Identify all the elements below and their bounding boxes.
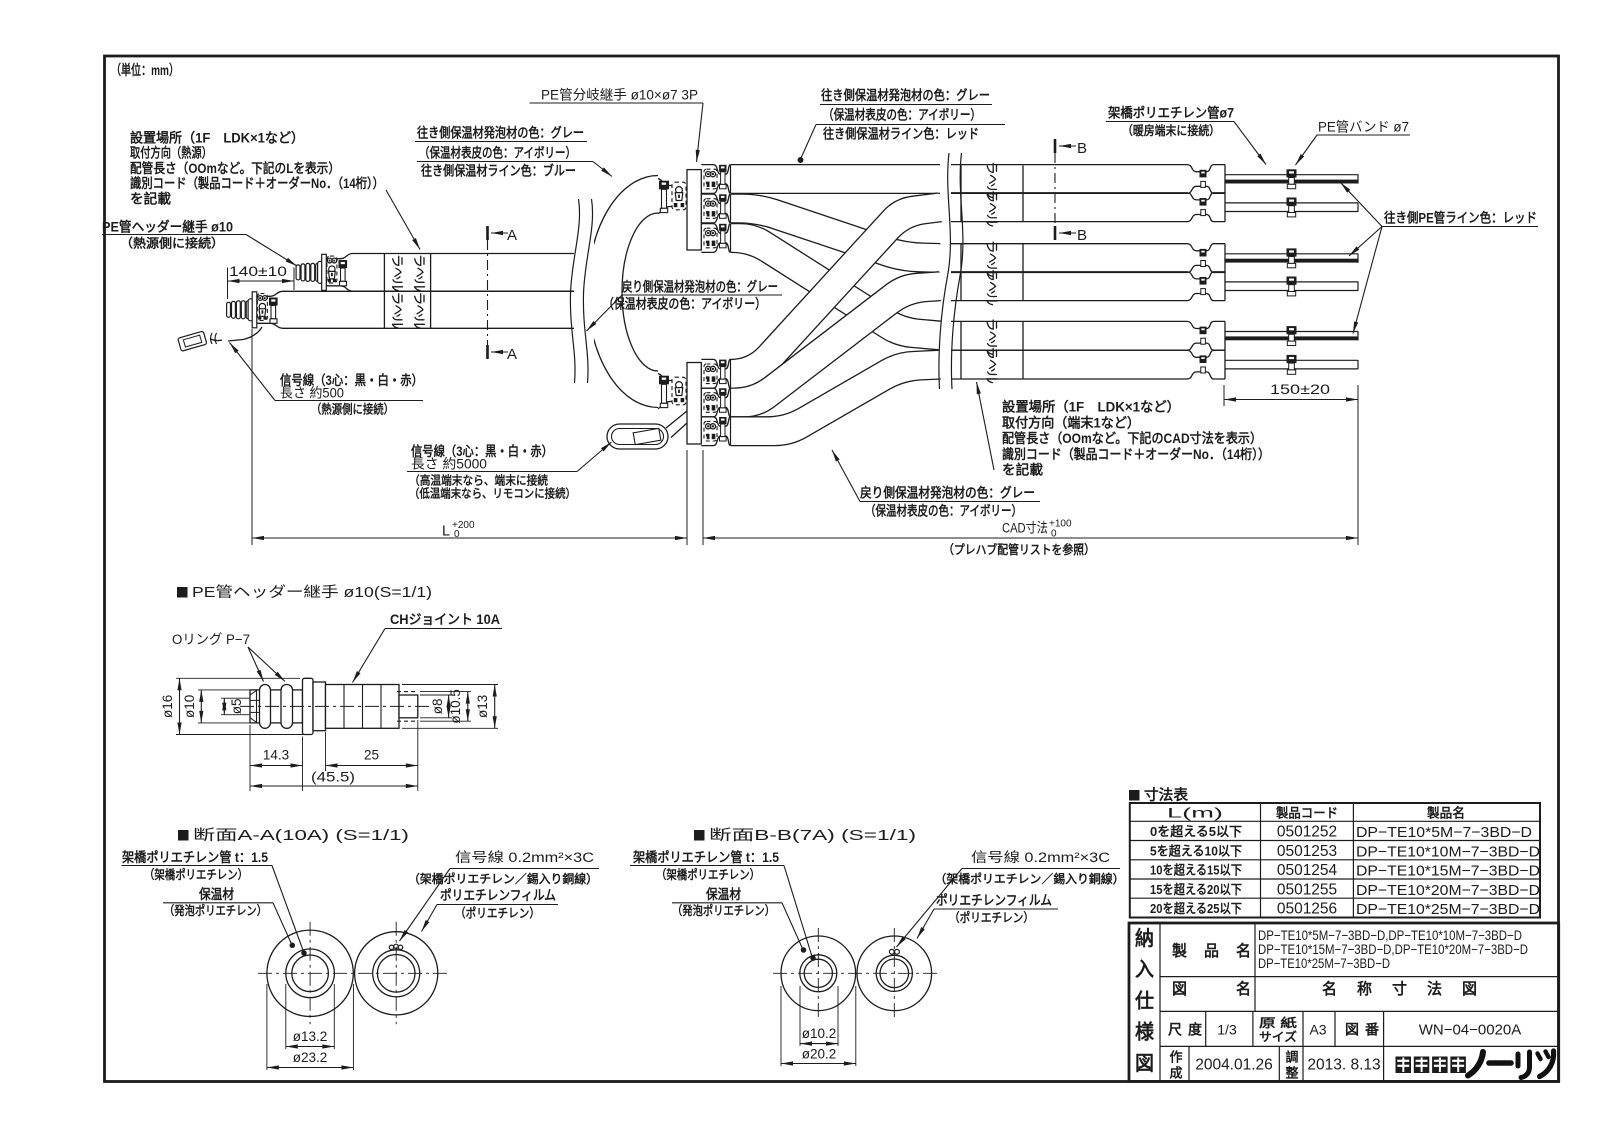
dim ø8 bbox=[420, 694, 452, 696]
vertical extension from fitting to L dim bbox=[251, 329, 253, 545]
label band on header pipes bbox=[383, 254, 385, 329]
svg-text:DP−TE10*15M−7−3BD−D: DP−TE10*15M−7−3BD−D bbox=[1356, 863, 1540, 880]
dim ø10.5 bbox=[420, 691, 471, 693]
svg-text:往き側保温材発泡材の色：グレー: 往き側保温材発泡材の色：グレー bbox=[821, 87, 990, 103]
neck band clamp bbox=[1200, 277, 1207, 285]
svg-text:称: 称 bbox=[1357, 979, 1372, 998]
svg-text:設置場所（1F LDK×1など）: 設置場所（1F LDK×1など） bbox=[1002, 399, 1180, 415]
PE pipe band clamp bbox=[1287, 326, 1297, 334]
A-A left pipe wall bbox=[286, 949, 335, 998]
B-B crosshairs bbox=[773, 972, 940, 974]
dim ø5 bbox=[221, 697, 250, 699]
detail centerline bbox=[240, 705, 430, 707]
svg-text:L(m): L(m) bbox=[1167, 806, 1223, 821]
B-B dim ø10.2 bbox=[799, 986, 801, 1046]
wavy break lines left bbox=[570, 199, 579, 383]
svg-text:（発泡ポリエチレン）: （発泡ポリエチレン） bbox=[164, 903, 267, 918]
L / CAD extension lines below lower branch fitting bbox=[686, 450, 688, 545]
svg-text:5を超える10以下: 5を超える10以下 bbox=[1150, 843, 1242, 858]
svg-text:A: A bbox=[507, 227, 517, 244]
svg-text:0501253: 0501253 bbox=[1277, 843, 1337, 860]
svg-text:保温材: 保温材 bbox=[198, 886, 234, 902]
svg-text:様: 様 bbox=[1135, 1020, 1155, 1044]
port band clamp bbox=[719, 194, 726, 201]
svg-text:（保温材表皮の色：アイボリー）: （保温材表皮の色：アイボリー） bbox=[823, 107, 981, 123]
svg-text:1/3: 1/3 bbox=[1217, 1022, 1237, 1038]
svg-text:識別コード（製品コード＋オーダーNo．（14桁））: 識別コード（製品コード＋オーダーNo．（14桁）） bbox=[1002, 446, 1270, 462]
svg-text:品: 品 bbox=[1204, 942, 1219, 960]
svg-text:B: B bbox=[1077, 227, 1087, 244]
A-A left circle insulation bbox=[267, 930, 353, 1016]
pair pipe segment bbox=[951, 192, 1187, 194]
svg-text:戻り側保温材発泡材の色：グレー: 戻り側保温材発泡材の色：グレー bbox=[622, 279, 778, 295]
dim 14.3 bbox=[249, 725, 251, 791]
title block rows bbox=[1160, 976, 1559, 978]
wavy break lines right bbox=[939, 153, 950, 389]
C-loop return bend inner arc bbox=[622, 213, 658, 371]
pair pipe segment bbox=[951, 320, 1187, 322]
branch fitting outlet port bbox=[701, 165, 730, 175]
svg-text:（プレハブ配管リストを参照）: （プレハブ配管リストを参照） bbox=[943, 542, 1095, 557]
svg-text:取付方向（熱源）: 取付方向（熱源） bbox=[130, 145, 212, 161]
B-B left pipe wall bbox=[800, 955, 837, 992]
svg-text:ø16: ø16 bbox=[160, 695, 175, 718]
branch fitting outlet port bbox=[701, 388, 730, 398]
svg-text:成: 成 bbox=[1170, 1066, 1183, 1081]
svg-text:架橋ポリエチレン管 t：1.5: 架橋ポリエチレン管 t：1.5 bbox=[121, 849, 268, 865]
svg-text:2013. 8.13: 2013. 8.13 bbox=[1307, 1057, 1380, 1074]
svg-text:信号線 0.2mm²×3C: 信号線 0.2mm²×3C bbox=[971, 850, 1110, 865]
dimension CAD +100/0 bbox=[703, 537, 1358, 539]
svg-text:調: 調 bbox=[1286, 1050, 1299, 1065]
neck band clamp bbox=[1200, 170, 1207, 178]
leader from right note block to label band bbox=[977, 382, 995, 470]
header fitting PE-pipe header joint bbox=[227, 302, 231, 317]
svg-text:PE管分岐継手 ø10×ø7 3P: PE管分岐継手 ø10×ø7 3P bbox=[541, 88, 698, 103]
svg-text:0: 0 bbox=[454, 529, 460, 540]
svg-text:（保温材表皮の色：アイボリー）: （保温材表皮の色：アイボリー） bbox=[419, 145, 576, 161]
detail flange bbox=[303, 678, 314, 734]
svg-text:0: 0 bbox=[1051, 529, 1057, 540]
svg-text:製品名: 製品名 bbox=[1426, 806, 1465, 821]
svg-text:断面A-A(10A) (S=1/1): 断面A-A(10A) (S=1/1) bbox=[193, 827, 409, 844]
pair pipe segment bbox=[951, 243, 1187, 245]
leader from note block to upper pipe bbox=[386, 190, 420, 250]
svg-text:（ポリエチレン）: （ポリエチレン） bbox=[949, 910, 1034, 925]
pipe U3 outbound to pair3 bbox=[731, 224, 941, 350]
detail collar bbox=[313, 682, 326, 731]
detail tip ø8 bbox=[399, 695, 418, 718]
svg-text:DP−TE10*15M−7−3BD−D,DP−TE10*20: DP−TE10*15M−7−3BD−D,DP−TE10*20M−7−3BD−D bbox=[1258, 942, 1528, 957]
svg-text:DP−TE10*10M−7−3BD−D: DP−TE10*10M−7−3BD−D bbox=[1356, 843, 1540, 860]
svg-text:0を超える5以下: 0を超える5以下 bbox=[1150, 824, 1242, 839]
svg-text:製: 製 bbox=[1171, 941, 1187, 960]
svg-text:名: 名 bbox=[1236, 979, 1251, 998]
hidden CH joint (dashed block) bbox=[327, 256, 337, 283]
svg-text:図: 図 bbox=[1345, 1022, 1359, 1038]
svg-text:DP−TE10*25M−7−3BD−D: DP−TE10*25M−7−3BD−D bbox=[1356, 901, 1540, 918]
svg-text:を記載: を記載 bbox=[1002, 462, 1044, 478]
svg-text:架橋ポリエチレン管 t：1.5: 架橋ポリエチレン管 t：1.5 bbox=[632, 849, 779, 865]
port band clamp bbox=[719, 224, 726, 231]
svg-text:信号線 0.2mm²×3C: 信号線 0.2mm²×3C bbox=[455, 850, 594, 865]
svg-text:図: 図 bbox=[1462, 980, 1477, 998]
pipe U1 outbound pair1 (straight) bbox=[731, 165, 940, 194]
pipe end neck and cap bbox=[1187, 244, 1225, 251]
svg-text:入: 入 bbox=[1135, 958, 1154, 981]
svg-text:製品コード: 製品コード bbox=[1275, 806, 1338, 821]
svg-text:（熱源側に接続）: （熱源側に接続） bbox=[311, 402, 394, 417]
pair pipe segment bbox=[951, 164, 1187, 166]
svg-text:往き側保温材ライン色：ブルー: 往き側保温材ライン色：ブルー bbox=[421, 163, 576, 179]
svg-text:ø10: ø10 bbox=[182, 695, 197, 718]
svg-text:（高温端末なら、端末に接続: （高温端末なら、端末に接続 bbox=[409, 473, 548, 488]
svg-text:長さ 約5000: 長さ 約5000 bbox=[411, 457, 487, 472]
svg-text:ø10.2: ø10.2 bbox=[802, 1026, 837, 1041]
svg-text:DP−TE10*5M−7−3BD−D: DP−TE10*5M−7−3BD−D bbox=[1356, 824, 1532, 841]
svg-text:DP−TE10*5M−7−3BD−D,DP−TE10*10M: DP−TE10*5M−7−3BD−D,DP−TE10*10M−7−3BD−D bbox=[1258, 928, 1522, 943]
lower header pipe (return) bbox=[257, 291, 575, 296]
svg-text:ø8: ø8 bbox=[430, 699, 445, 715]
svg-text:仕: 仕 bbox=[1134, 988, 1154, 1012]
branch fitting inlet connector block bbox=[672, 182, 686, 210]
svg-text:（発泡ポリエチレン）: （発泡ポリエチレン） bbox=[672, 903, 775, 918]
svg-text:（暖房端末に接続）: （暖房端末に接続） bbox=[1122, 123, 1220, 138]
svg-text:DP−TE10*25M−7−3BD−D: DP−TE10*25M−7−3BD−D bbox=[1258, 956, 1390, 971]
svg-text:図: 図 bbox=[1172, 980, 1187, 998]
branch fitting inlet neck and band bbox=[658, 373, 672, 380]
svg-text:0501252: 0501252 bbox=[1277, 824, 1337, 841]
B-B right circle film bbox=[857, 936, 932, 1011]
svg-text:ø20.2: ø20.2 bbox=[802, 1047, 837, 1062]
pipe U2 outbound to pair2 bbox=[731, 194, 940, 272]
svg-text:整: 整 bbox=[1285, 1066, 1300, 1081]
svg-text:0501254: 0501254 bbox=[1277, 862, 1338, 879]
svg-text:度: 度 bbox=[1188, 1022, 1203, 1038]
B-B right signal ring bbox=[876, 955, 912, 991]
svg-text:保温材: 保温材 bbox=[705, 886, 741, 902]
detail title PE header joint bbox=[177, 587, 188, 598]
svg-text:を記載: を記載 bbox=[130, 190, 172, 206]
svg-text:ø10.5: ø10.5 bbox=[448, 689, 463, 724]
PE pipe band clamp bbox=[1287, 198, 1297, 206]
detail CH joint barrel bbox=[326, 685, 400, 729]
dimension 150±20 bbox=[1223, 385, 1225, 406]
svg-text:尺: 尺 bbox=[1168, 1022, 1182, 1038]
svg-text:往き側PE管ライン色：レッド: 往き側PE管ライン色：レッド bbox=[1384, 210, 1537, 226]
svg-text:寸: 寸 bbox=[1392, 979, 1407, 998]
svg-text:ø23.2: ø23.2 bbox=[293, 1050, 328, 1065]
pair pipe segment bbox=[951, 349, 1187, 351]
svg-text:CHジョイント 10A: CHジョイント 10A bbox=[390, 612, 500, 627]
A-A dim ø13.2 bbox=[285, 984, 287, 1049]
neck band clamp bbox=[1200, 355, 1207, 363]
pipe L1 return to pair1 bbox=[731, 193, 942, 388]
pipe end neck and cap bbox=[1187, 165, 1225, 172]
svg-text:15を超える20以下: 15を超える20以下 bbox=[1150, 882, 1242, 897]
pipe L2 return to pair2 bbox=[731, 272, 941, 417]
svg-text:140±10: 140±10 bbox=[229, 264, 287, 279]
pipe band clamp bbox=[269, 298, 278, 306]
svg-text:配管長さ（OOmなど。下記のLを表示）: 配管長さ（OOmなど。下記のLを表示） bbox=[130, 160, 340, 176]
pipe end neck and cap bbox=[1187, 321, 1225, 328]
neck band clamp bbox=[1200, 249, 1207, 257]
port band clamp bbox=[719, 388, 726, 395]
svg-text:往き側保温材発泡材の色：グレー: 往き側保温材発泡材の色：グレー bbox=[417, 125, 584, 141]
svg-text:配管長さ（OOmなど。下記のCAD寸法を表示）: 配管長さ（OOmなど。下記のCAD寸法を表示） bbox=[1002, 430, 1262, 446]
svg-text:ø5: ø5 bbox=[229, 699, 244, 715]
svg-text:B: B bbox=[1077, 140, 1087, 157]
section B-B title bbox=[694, 830, 705, 841]
pipe end neck and cap bbox=[1187, 350, 1225, 357]
dimension 140±10 bbox=[227, 268, 229, 300]
C-loop return bend outer arc bbox=[588, 176, 659, 408]
Noritz company logo bbox=[1396, 1057, 1412, 1074]
port band clamp bbox=[719, 417, 726, 424]
section B-B cut line bbox=[1054, 153, 1056, 228]
svg-text:名: 名 bbox=[1322, 979, 1337, 998]
svg-text:断面B-B(7A) (S=1/1): 断面B-B(7A) (S=1/1) bbox=[709, 827, 916, 844]
pair pipe segment bbox=[951, 271, 1187, 273]
svg-text:25: 25 bbox=[364, 748, 379, 763]
A-A dim ø23.2 bbox=[266, 984, 268, 1070]
svg-text:PE管ヘッダー継手 ø10: PE管ヘッダー継手 ø10 bbox=[102, 219, 233, 235]
label bands right with rotated label text bbox=[960, 166, 962, 222]
pipe end neck and cap bbox=[1187, 193, 1225, 200]
thin PE pipes at right ends bbox=[1225, 174, 1358, 176]
svg-text:法: 法 bbox=[1427, 979, 1442, 998]
svg-text:DP−TE10*20M−7−3BD−D: DP−TE10*20M−7−3BD−D bbox=[1356, 882, 1540, 899]
svg-text:10を超える15以下: 10を超える15以下 bbox=[1150, 863, 1242, 878]
section A-A cut line bbox=[487, 240, 489, 346]
signal line to heat source with tag connector bbox=[228, 327, 262, 341]
svg-text:作: 作 bbox=[1170, 1050, 1183, 1065]
signal line capsule connector bbox=[666, 411, 687, 428]
svg-text:架橋ポリエチレン管ø7: 架橋ポリエチレン管ø7 bbox=[1107, 105, 1234, 121]
svg-text:（熱源側に接続）: （熱源側に接続） bbox=[120, 236, 224, 251]
svg-text:ø13.2: ø13.2 bbox=[293, 1029, 328, 1044]
B-B signal wires bbox=[889, 949, 894, 954]
PE pipe band clamp bbox=[1287, 248, 1297, 256]
svg-text:戻り側保温材発泡材の色：グレー: 戻り側保温材発泡材の色：グレー bbox=[860, 485, 1035, 501]
svg-text:0501256: 0501256 bbox=[1277, 901, 1337, 918]
svg-text:原 紙: 原 紙 bbox=[1259, 1015, 1297, 1030]
svg-text:ポリエチレンフィルム: ポリエチレンフィルム bbox=[440, 887, 556, 903]
neck band clamp bbox=[1200, 327, 1207, 335]
svg-text:2004.01.26: 2004.01.26 bbox=[1195, 1057, 1273, 1074]
svg-text:ø13: ø13 bbox=[475, 695, 490, 718]
svg-text:識別コード（製品コード＋オーダーNo．（14桁））: 識別コード（製品コード＋オーダーNo．（14桁）） bbox=[130, 175, 384, 191]
svg-text:サイズ: サイズ bbox=[1259, 1029, 1297, 1044]
section A-A title bbox=[178, 830, 189, 841]
svg-text:（架橋ポリエチレン）: （架橋ポリエチレン） bbox=[656, 867, 760, 882]
svg-text:図: 図 bbox=[1135, 1053, 1154, 1075]
detail O-rings bbox=[260, 685, 271, 729]
svg-text:長さ 約500: 長さ 約500 bbox=[280, 386, 344, 401]
svg-text:寸法表: 寸法表 bbox=[1144, 786, 1189, 804]
svg-text:A: A bbox=[507, 346, 517, 363]
lower branch fitting plate bbox=[687, 363, 701, 445]
svg-text:（架橋ポリエチレン／錫入り銅線）: （架橋ポリエチレン／錫入り銅線） bbox=[408, 871, 598, 886]
svg-text:名: 名 bbox=[1236, 941, 1251, 960]
PE pipe band clamp bbox=[1287, 355, 1297, 363]
pipe end neck and cap bbox=[1187, 272, 1225, 279]
detail body cylinder ø10 bbox=[250, 690, 303, 723]
svg-text:A3: A3 bbox=[1309, 1022, 1326, 1038]
svg-text:往き側保温材ライン色：レッド: 往き側保温材ライン色：レッド bbox=[823, 126, 979, 142]
svg-text:納: 納 bbox=[1135, 926, 1154, 950]
svg-text:14.3: 14.3 bbox=[263, 748, 289, 763]
pipe L3 return to pair3 bbox=[731, 350, 941, 445]
svg-text:（単位：mm）: （単位：mm） bbox=[111, 62, 179, 78]
port band clamp bbox=[719, 165, 726, 172]
branch fitting outlet port bbox=[701, 194, 730, 204]
A-A right circle film bbox=[355, 932, 438, 1015]
svg-text:設置場所（1F LDK×1など）: 設置場所（1F LDK×1など） bbox=[130, 130, 304, 146]
svg-text:Oリング P−7: Oリング P−7 bbox=[172, 632, 250, 647]
hidden CH joint (dashed block) bbox=[257, 294, 267, 321]
title block frame bbox=[1129, 923, 1559, 1081]
svg-text:PE管ヘッダー継手 ø10(S=1/1): PE管ヘッダー継手 ø10(S=1/1) bbox=[192, 584, 432, 601]
svg-text:（架橋ポリエチレン／錫入り銅線）: （架橋ポリエチレン／錫入り銅線） bbox=[935, 871, 1125, 886]
svg-text:20を超える25以下: 20を超える25以下 bbox=[1150, 901, 1242, 916]
title block left column nounyuu shiyouzu bbox=[1159, 923, 1161, 1081]
A-A right signal ring bbox=[373, 950, 420, 997]
svg-text:WN−04−0020A: WN−04−0020A bbox=[1419, 1022, 1522, 1039]
branch fitting inlet neck and band bbox=[658, 178, 672, 185]
svg-text:ポリエチレンフィルム: ポリエチレンフィルム bbox=[936, 892, 1052, 908]
PE pipe band clamp bbox=[1287, 169, 1297, 177]
svg-text:（架橋ポリエチレン）: （架橋ポリエチレン） bbox=[144, 867, 248, 882]
branch fitting outlet port bbox=[701, 359, 730, 369]
svg-text:取付方向（端末1など）: 取付方向（端末1など） bbox=[1002, 414, 1140, 430]
svg-text:CAD寸法: CAD寸法 bbox=[1002, 521, 1048, 536]
dimension table title bbox=[1129, 790, 1140, 801]
branch fitting outlet port bbox=[701, 224, 730, 234]
svg-text:（保温材表皮の色：アイボリー）: （保温材表皮の色：アイボリー） bbox=[865, 503, 1022, 519]
pipe band clamp bbox=[339, 260, 348, 268]
dim ø10 bbox=[198, 689, 250, 691]
dim ø16 bbox=[176, 677, 300, 679]
svg-text:0501255: 0501255 bbox=[1277, 881, 1337, 898]
svg-text:番: 番 bbox=[1364, 1022, 1380, 1038]
date row bbox=[1188, 1046, 1190, 1081]
A-A crosshairs bbox=[258, 972, 447, 974]
port band clamp bbox=[719, 360, 726, 367]
scale row bbox=[1205, 1011, 1207, 1046]
A-A signal wires bbox=[389, 945, 393, 949]
branch fitting inlet connector block bbox=[672, 377, 686, 405]
svg-text:(45.5): (45.5) bbox=[311, 770, 355, 785]
upper header pipe (outbound) bbox=[326, 254, 574, 259]
PE pipe band clamp bbox=[1287, 277, 1297, 285]
svg-text:（低温端末なら、リモコンに接続）: （低温端末なら、リモコンに接続） bbox=[409, 486, 576, 501]
dimension L +200/0 bbox=[252, 537, 687, 539]
dimension table bbox=[1130, 803, 1540, 918]
upper branch fitting plate bbox=[687, 170, 701, 250]
svg-text:（ポリエチレン）: （ポリエチレン） bbox=[455, 906, 540, 921]
svg-text:（保温材表皮の色：アイボリー）: （保温材表皮の色：アイボリー） bbox=[603, 296, 766, 312]
branch fitting outlet port bbox=[701, 417, 730, 427]
dim ø13 bbox=[402, 684, 498, 686]
neck band clamp bbox=[1200, 198, 1207, 206]
svg-text:PE管バンド ø7: PE管バンド ø7 bbox=[1318, 120, 1409, 135]
B-B dim ø20.2 bbox=[780, 986, 782, 1066]
dim 25 bbox=[325, 732, 327, 771]
dim 45.5 overall bbox=[250, 785, 418, 787]
B-B left circle insulation bbox=[781, 936, 856, 1011]
header fitting PE-pipe header joint bbox=[296, 265, 300, 280]
svg-text:150±20: 150±20 bbox=[1270, 382, 1330, 397]
svg-text:L: L bbox=[442, 524, 450, 540]
